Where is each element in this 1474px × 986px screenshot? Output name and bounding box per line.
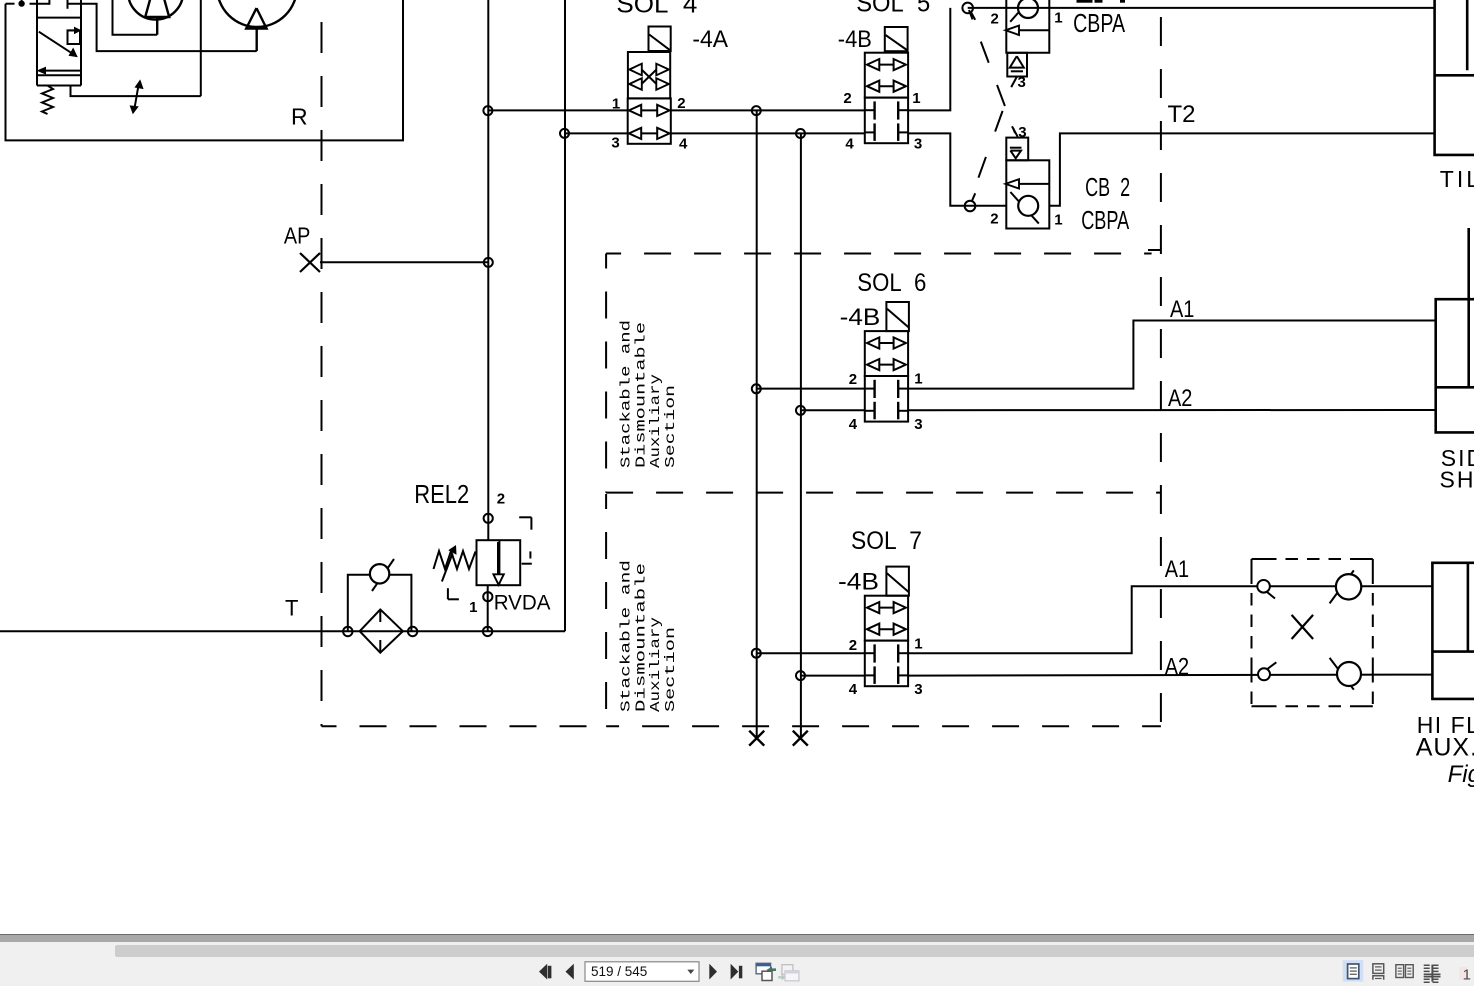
wire SOL6 A1 — [908, 321, 1436, 389]
wire SOL5 to CB2 — [908, 133, 1006, 205]
wire pump column — [200, 0, 202, 96]
port 2 CB1 — [962, 3, 973, 14]
valve REL2 drain bracket — [447, 588, 449, 599]
wire P line to SOL4 — [488, 109, 627, 111]
junction node SOL6 p4 — [796, 406, 805, 415]
svg-text:R: R — [291, 103, 308, 129]
compensator vent arrow — [45, 70, 81, 72]
junction node SOL7 p4 — [796, 671, 805, 680]
filter F1 — [360, 610, 403, 653]
junction node SOL7 p2 — [752, 649, 761, 658]
pilot line CB2-to-CB1 (dashed) — [970, 87, 1011, 201]
nav last page button — [731, 964, 743, 980]
wire SOL7 port4 — [801, 675, 865, 677]
svg-text:AUX. F: AUX. F — [1416, 734, 1474, 762]
page number combo box — [585, 962, 699, 982]
wire top edge segment 2 — [30, 3, 50, 5]
pump P1 — [128, 0, 183, 20]
wire SOL7 A1 — [908, 586, 1432, 653]
cylinder SIDESHIFT barrel — [1436, 299, 1474, 432]
filter bypass check — [348, 575, 370, 632]
wire pilot top — [67, 0, 69, 9]
svg-text:3: 3 — [1018, 124, 1026, 141]
svg-text:Auxiliary: Auxiliary — [649, 374, 664, 468]
svg-text:-4B: -4B — [838, 569, 879, 596]
svg-text:1: 1 — [914, 636, 922, 653]
valve CB1 body — [1006, 0, 1049, 53]
svg-text:T: T — [285, 596, 298, 621]
wire T line to SOL4 row2 — [565, 132, 628, 134]
port node filter in — [343, 627, 352, 636]
valve CB1 pilot box — [1007, 53, 1027, 77]
svg-text:1: 1 — [1054, 9, 1062, 26]
svg-text:1: 1 — [912, 90, 920, 107]
valve SOL7 body — [865, 596, 908, 641]
compensator spring — [42, 86, 53, 115]
wire CB1 port1 — [968, 7, 1435, 9]
svg-text:2: 2 — [677, 95, 685, 112]
svg-text:2: 2 — [990, 211, 998, 228]
aux box divider (dashed) — [606, 492, 1161, 494]
nav first page button — [539, 964, 551, 980]
port 1 REL2 — [483, 592, 492, 601]
solenoid coil SOL5 — [885, 27, 908, 51]
svg-text:RVDA: RVDA — [494, 592, 551, 615]
svg-text:TILT: TILT — [1440, 166, 1474, 192]
main section boundary bottom (dashed) — [322, 725, 607, 727]
compensator proportional arrow — [39, 32, 74, 55]
svg-text:1: 1 — [1463, 967, 1471, 984]
junction node SOL6 p2 — [752, 384, 761, 393]
check valve A2 — [1330, 658, 1354, 690]
svg-text:A2: A2 — [1165, 654, 1189, 681]
valve SOL4 arrow row2 — [637, 132, 662, 134]
svg-text:Stackable and: Stackable and — [620, 320, 635, 468]
svg-text:4: 4 — [849, 416, 858, 433]
svg-text:4: 4 — [849, 681, 858, 698]
solenoid coil SOL6 — [886, 302, 909, 331]
compensator valve V1 body — [36, 0, 38, 86]
svg-text:3: 3 — [914, 416, 922, 433]
svg-text:3: 3 — [914, 135, 922, 152]
aux box 1 (dashed) — [606, 253, 1152, 255]
cylinder TILT barrel — [1435, 0, 1474, 155]
svg-text:AP: AP — [284, 223, 310, 249]
valve SOL5 body — [865, 53, 908, 98]
valve CB1 arrow — [1012, 29, 1049, 31]
port AP plug X — [300, 253, 320, 272]
wire pressure rail lower — [487, 585, 489, 631]
valve REL2 body — [477, 540, 521, 585]
wire aux rail 2 — [800, 133, 802, 738]
svg-text:-4B: -4B — [838, 26, 872, 53]
svg-text:2: 2 — [843, 90, 851, 107]
main section boundary left (dashed) — [321, 0, 323, 726]
valve SOL4 crossed box — [628, 52, 670, 98]
svg-text:Auxiliary: Auxiliary — [649, 617, 664, 712]
valve SOL4 crossed arrows — [642, 70, 657, 85]
svg-text:CBPA: CBPA — [1081, 205, 1129, 235]
valve CB2 pilot box — [1006, 138, 1028, 161]
svg-text:A1: A1 — [1165, 556, 1189, 583]
wire SOL6 A2 — [908, 409, 1436, 411]
wire SOL4 to SOL5 row2 — [670, 132, 865, 134]
svg-text:CBPA: CBPA — [1073, 8, 1125, 38]
cylinder HIFLOW piston — [1432, 650, 1474, 653]
svg-text:-4B: -4B — [840, 304, 881, 331]
port 2 CB2 — [965, 201, 976, 212]
plug X check box — [1292, 615, 1314, 639]
svg-text:SOL 7: SOL 7 — [851, 527, 922, 555]
junction node T-row2 — [560, 129, 569, 138]
aux box 1 corner dash — [1148, 249, 1161, 251]
svg-text:4: 4 — [845, 135, 854, 152]
wire CB2 port1 — [1049, 133, 1434, 205]
valve SOL6 body — [865, 331, 908, 376]
svg-text:4: 4 — [679, 135, 688, 152]
valve SOL4 arrow row1 — [637, 109, 662, 111]
pump P2 — [217, 0, 297, 27]
label CB1 partial — [1077, 0, 1092, 2]
zoom level text — [1459, 967, 1467, 980]
coupling A2 — [1267, 662, 1276, 669]
valve SOL4 parallel box — [628, 98, 671, 143]
wire T line — [0, 630, 565, 632]
svg-text:-4A: -4A — [692, 26, 728, 53]
variable displacement arrow — [134, 84, 138, 110]
wire SOL5 to CB1 — [908, 8, 950, 111]
wire SOL7 port2 — [757, 652, 865, 654]
check valve box (dashed) — [1252, 558, 1373, 560]
valve CB2 body — [1006, 160, 1049, 228]
wire SOL7 A2 — [908, 675, 1432, 676]
port node filter out — [408, 627, 417, 636]
svg-text:Section: Section — [664, 627, 679, 712]
solenoid coil SOL4 — [649, 27, 671, 52]
pilot line CB1-to-CB2 (dashed) — [969, 10, 1015, 133]
single page layout button (active) — [1343, 960, 1364, 981]
wire pump P1 case drain — [113, 0, 158, 35]
valve REL2 pilot (dashed) — [519, 516, 531, 518]
svg-text:2: 2 — [991, 11, 999, 28]
junction node aux1 — [752, 106, 761, 115]
nav previous page button — [566, 964, 574, 980]
wire SOL6 port4 — [801, 409, 865, 411]
svg-text:SHIFT: SHIFT — [1440, 467, 1474, 493]
svg-text:519 / 545: 519 / 545 — [591, 964, 647, 979]
svg-text:SOL 4: SOL 4 — [616, 0, 697, 18]
wire valve drain — [71, 86, 201, 97]
svg-text:T2: T2 — [1168, 101, 1196, 128]
aux section boundary T2 (dashed) — [1160, 0, 1162, 737]
wire AP — [320, 261, 488, 263]
svg-text:Dismountable: Dismountable — [634, 563, 649, 712]
svg-text:Section: Section — [664, 385, 679, 468]
compensator pilot box — [68, 30, 81, 44]
plug X aux rail 2 — [793, 731, 808, 746]
hydraulic power unit enclosure — [6, 0, 404, 140]
wire aux rail 1 — [756, 110, 758, 738]
svg-text:2: 2 — [849, 371, 857, 388]
junction dot — [19, 1, 24, 6]
aux box 2 (dashed) — [605, 494, 607, 726]
svg-text:1: 1 — [469, 599, 477, 616]
port 2 REL2 — [484, 514, 493, 523]
svg-text:1: 1 — [612, 96, 620, 113]
valve REL2 spring — [434, 551, 476, 569]
facing continuous layout button — [1424, 965, 1441, 983]
junction node RVDA-T — [483, 627, 492, 636]
wire top edge segment — [6, 3, 15, 5]
coupling A1 — [1267, 592, 1275, 599]
svg-text:1: 1 — [1054, 211, 1062, 228]
valve CB2 check — [1010, 192, 1038, 224]
solenoid coil SOL7 — [886, 567, 909, 596]
previous view button — [756, 963, 776, 980]
plug X aux rail 1 — [749, 731, 764, 746]
nav next page button — [709, 964, 717, 980]
svg-text:Stackable and: Stackable and — [620, 560, 635, 712]
wire SOL4 to SOL5 row1 — [670, 109, 865, 111]
cylinder SIDESHIFT piston — [1436, 386, 1474, 389]
svg-text:CB 2: CB 2 — [1085, 172, 1130, 202]
svg-text:Fig: Fig — [1448, 761, 1474, 788]
valve REL2 adjust arrow — [442, 554, 453, 582]
valve CB2 arrow — [1012, 183, 1049, 185]
svg-text:Dismountable: Dismountable — [634, 322, 649, 468]
pin 3 CB2 — [1012, 126, 1018, 137]
cylinder HIFLOW barrel — [1432, 563, 1474, 699]
svg-text:1: 1 — [914, 371, 922, 388]
pin 3 CB1 — [1011, 77, 1017, 88]
svg-text:A2: A2 — [1168, 385, 1192, 412]
svg-text:SOL 6: SOL 6 — [857, 269, 926, 297]
wire pressure rail — [487, 0, 489, 540]
svg-text:3: 3 — [1018, 74, 1026, 91]
svg-text:SOL 5: SOL 5 — [856, 0, 930, 18]
junction node AP — [484, 258, 493, 267]
svg-text:A1: A1 — [1170, 296, 1194, 323]
valve CB1 check — [1010, 0, 1034, 22]
junction node aux2 — [796, 129, 805, 138]
cylinder TILT piston — [1435, 74, 1474, 77]
junction node P-SOL4 — [483, 106, 492, 115]
facing pages layout button — [1396, 965, 1413, 978]
continuous layout button — [1373, 964, 1384, 980]
svg-text:3: 3 — [611, 135, 619, 152]
svg-text:2: 2 — [497, 491, 505, 508]
check valve A1 — [1330, 570, 1354, 603]
wire tank rail — [564, 0, 566, 631]
next view button (disabled) — [778, 965, 799, 981]
svg-text:2: 2 — [849, 637, 857, 654]
svg-text:3: 3 — [914, 681, 922, 698]
valve REL2 arrow — [497, 542, 499, 574]
wire SOL6 port2 — [757, 388, 865, 390]
svg-text:REL2: REL2 — [414, 479, 469, 509]
